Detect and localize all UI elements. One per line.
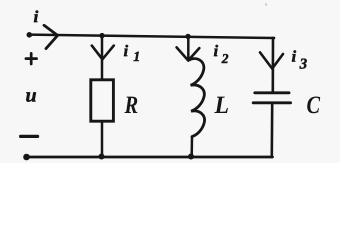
inductor L <box>189 59 205 137</box>
wire: R branch bottom segment <box>101 121 104 157</box>
svg-text:i: i <box>124 43 129 60</box>
svg-text:1: 1 <box>133 50 140 65</box>
node: L branch top junction <box>185 34 190 39</box>
resistor R <box>91 80 114 121</box>
node: R branch bottom junction <box>99 154 105 160</box>
wire: C branch bottom segment <box>270 103 273 157</box>
svg-text:C: C <box>307 92 321 119</box>
node: R branch top junction <box>99 33 104 38</box>
wire: bottom horizontal <box>27 156 273 159</box>
wire: R branch top segment <box>101 36 104 80</box>
node: left top terminal <box>27 32 33 38</box>
wire: top horizontal <box>30 35 275 38</box>
svg-text:3: 3 <box>299 57 308 73</box>
wire: L branch top segment <box>187 36 190 60</box>
svg-text:i: i <box>34 7 39 26</box>
capacitor C <box>253 93 290 103</box>
svg-text:i: i <box>214 43 219 60</box>
svg-text:u: u <box>26 85 37 107</box>
current arrow i <box>44 25 58 48</box>
svg-text:2: 2 <box>221 51 229 66</box>
wire: C branch top segment (corner) <box>273 38 274 93</box>
svg-text:i: i <box>292 49 297 66</box>
current arrow i2 <box>177 47 200 60</box>
current arrow i3 <box>260 52 283 68</box>
wire: L branch bottom segment <box>190 137 193 157</box>
svg-text:L: L <box>214 92 229 119</box>
symbol - (source polarity) <box>21 135 38 138</box>
symbol + (source polarity) <box>26 53 37 64</box>
node: left bottom terminal <box>23 154 30 161</box>
node: L branch bottom junction <box>188 154 194 160</box>
svg-text:R: R <box>124 92 139 119</box>
current arrow i1 <box>92 46 114 60</box>
